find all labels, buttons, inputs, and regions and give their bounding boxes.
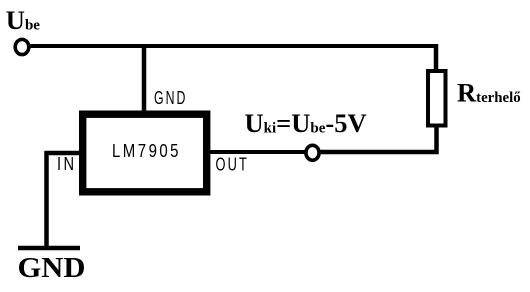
- wire input drop to ground: [44, 151, 49, 250]
- voltage regulator IC LM7905 body: [83, 114, 207, 192]
- wire load top: [434, 44, 439, 71]
- resistor Rterhelo (load) body: [428, 71, 446, 126]
- svg-text:GND: GND: [18, 252, 86, 284]
- svg-text:GND: GND: [154, 88, 188, 108]
- wire IN pin: [45, 151, 81, 156]
- svg-text:IN: IN: [57, 154, 77, 174]
- svg-text:OUT: OUT: [216, 155, 250, 175]
- wire output to load: [320, 125, 437, 152]
- wire GND pin drop: [142, 44, 147, 112]
- svg-text:Uki=Ube-5V: Uki=Ube-5V: [245, 108, 367, 138]
- wire OUT pin: [209, 150, 305, 154]
- input terminal: [15, 39, 29, 54]
- wire top rail: [31, 44, 439, 48]
- svg-text:LM7905: LM7905: [112, 141, 181, 161]
- ground: [18, 246, 80, 251]
- output terminal: [306, 145, 319, 160]
